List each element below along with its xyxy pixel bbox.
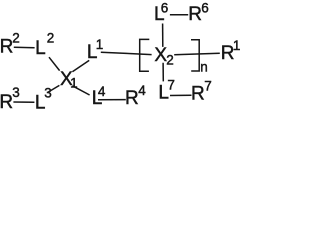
- bond R3-L3: [13, 101, 34, 103]
- bond L2-X1: [49, 57, 60, 70]
- svg-text:4: 4: [138, 83, 146, 98]
- right bracket: [191, 40, 199, 71]
- svg-text:6: 6: [161, 1, 169, 16]
- atom label R1: [221, 38, 241, 64]
- svg-text:n: n: [200, 60, 208, 75]
- atom label R2: [0, 31, 20, 58]
- svg-text:1: 1: [233, 38, 240, 53]
- svg-text:7: 7: [204, 78, 212, 93]
- atom label L1: [87, 37, 103, 63]
- svg-text:4: 4: [98, 84, 106, 99]
- atom label R6: [188, 1, 209, 26]
- svg-text:R: R: [0, 92, 13, 111]
- bond L6-R6: [170, 14, 188, 16]
- atom label L3: [35, 85, 52, 113]
- atom label X1: [60, 69, 78, 91]
- svg-text:1: 1: [96, 37, 104, 52]
- svg-text:R: R: [188, 4, 202, 25]
- bond L7-R7: [170, 94, 192, 96]
- bond X1-L1: [72, 60, 89, 71]
- atom label L2: [35, 30, 54, 59]
- svg-text:2: 2: [12, 31, 20, 46]
- atom label X2: [154, 45, 173, 67]
- svg-text:2: 2: [47, 30, 55, 45]
- atom label L6: [154, 1, 168, 25]
- atom label L4: [92, 84, 106, 109]
- svg-text:R: R: [125, 88, 139, 109]
- atom label L7: [158, 78, 175, 104]
- bond L3-X1: [47, 85, 59, 92]
- bond X2-L6: [162, 24, 164, 47]
- bond X1-L4: [72, 86, 89, 95]
- svg-text:R: R: [191, 84, 205, 105]
- bond bracket-R1: [174, 53, 220, 55]
- svg-text:7: 7: [167, 78, 175, 93]
- svg-text:6: 6: [201, 1, 209, 16]
- bond X2-L7: [162, 63, 164, 82]
- atom label R7: [191, 78, 212, 104]
- atom label R3: [0, 85, 20, 113]
- svg-text:L: L: [35, 38, 46, 59]
- bond L1-X2 (enters bracket): [101, 52, 152, 54]
- svg-text:3: 3: [12, 85, 20, 100]
- atom label R4: [125, 83, 146, 109]
- bond R2-L2: [14, 46, 35, 49]
- svg-text:2: 2: [166, 52, 174, 67]
- bond L4-R4: [98, 99, 126, 101]
- left bracket: [140, 39, 150, 71]
